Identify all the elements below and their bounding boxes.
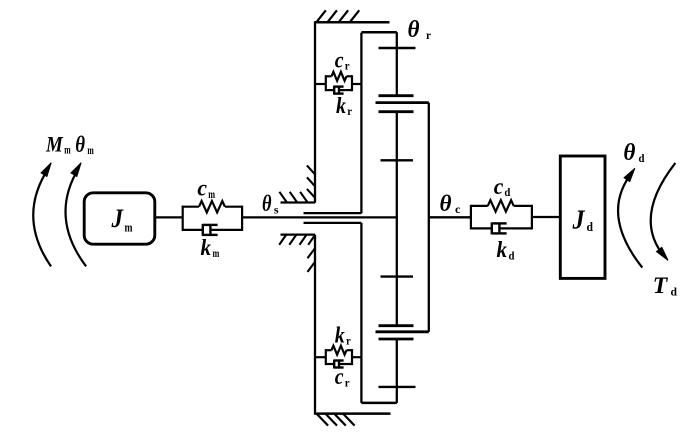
svg-text:c: c bbox=[335, 364, 344, 389]
label c_r upper bbox=[335, 47, 350, 72]
svg-text:θ: θ bbox=[623, 140, 636, 166]
svg-text:d: d bbox=[504, 185, 510, 199]
floor fixed support bbox=[315, 414, 391, 426]
sun shaft upper rail bbox=[304, 212, 362, 214]
lead housing to c_r upper bbox=[315, 83, 326, 85]
svg-text:k: k bbox=[201, 235, 212, 260]
label theta_c bbox=[440, 191, 462, 216]
label k_d bbox=[497, 237, 515, 262]
svg-text:c: c bbox=[335, 47, 344, 72]
lead housing to k_r lower bbox=[315, 356, 326, 358]
ring-planet mesh plates top bbox=[376, 96, 429, 112]
label J_d bbox=[572, 204, 594, 234]
label J_m bbox=[111, 204, 133, 235]
svg-text:r: r bbox=[345, 59, 350, 73]
svg-text:d: d bbox=[639, 151, 645, 165]
planet gear line bbox=[396, 32, 398, 403]
svg-text:m: m bbox=[125, 220, 133, 235]
svg-text:c: c bbox=[494, 174, 504, 199]
svg-text:k: k bbox=[336, 93, 346, 118]
label theta_s bbox=[262, 191, 279, 216]
angle arrow theta_m bbox=[66, 163, 87, 267]
carrier vertical bbox=[428, 103, 430, 332]
housing wall left lower bbox=[314, 235, 316, 415]
bearing tick upper-mid bbox=[381, 159, 414, 161]
svg-text:m: m bbox=[208, 187, 215, 201]
svg-text:r: r bbox=[347, 104, 352, 118]
spring-damper c_m k_m bbox=[183, 201, 242, 236]
svg-text:d: d bbox=[509, 248, 515, 262]
label theta_r bbox=[408, 17, 432, 43]
label k_m bbox=[201, 235, 220, 260]
spring-damper c_d k_d box bbox=[471, 200, 532, 234]
planet-sun mesh plates bottom bbox=[376, 326, 429, 339]
angle arrow theta_d bbox=[618, 168, 642, 267]
torque arrow T_d bbox=[651, 163, 676, 260]
svg-text:m: m bbox=[64, 143, 70, 157]
lower wall stub with hatching bbox=[279, 235, 315, 272]
svg-text:M: M bbox=[45, 132, 64, 157]
torque arrow M_m bbox=[33, 163, 51, 267]
ceiling fixed support bbox=[315, 10, 390, 22]
svg-text:r: r bbox=[346, 334, 351, 348]
label theta_d bbox=[623, 140, 644, 166]
svg-text:θ: θ bbox=[262, 191, 272, 216]
svg-text:c: c bbox=[197, 176, 207, 201]
motor shaft lead bbox=[155, 216, 183, 218]
label k_r upper bbox=[336, 93, 353, 118]
svg-text:θ: θ bbox=[75, 132, 85, 157]
svg-text:θ: θ bbox=[440, 191, 452, 216]
ring gear frame bbox=[361, 32, 396, 403]
housing wall left upper bbox=[314, 21, 316, 203]
inertia J_m bbox=[84, 193, 155, 244]
svg-text:s: s bbox=[274, 202, 279, 216]
svg-text:m: m bbox=[213, 246, 220, 260]
inertia J_d bbox=[560, 156, 605, 278]
gear mesh tick bottom bbox=[379, 386, 416, 388]
label theta_m bbox=[75, 132, 94, 157]
label c_d bbox=[494, 174, 511, 199]
label c_r lower bbox=[335, 364, 350, 389]
sun shaft center line bbox=[242, 216, 397, 218]
upper wall stub with hatching bbox=[279, 165, 315, 202]
sun shaft lower rail bbox=[304, 222, 362, 224]
bearing tick lower-mid bbox=[381, 275, 414, 277]
svg-text:θ: θ bbox=[408, 17, 421, 43]
svg-text:r: r bbox=[426, 28, 432, 42]
label M_m bbox=[45, 132, 71, 157]
spring-damper c_r k_r upper box bbox=[326, 72, 352, 95]
label k_r lower bbox=[335, 322, 352, 347]
carrier output shaft bbox=[429, 216, 471, 218]
svg-text:d: d bbox=[671, 285, 678, 299]
label T_d bbox=[653, 273, 678, 298]
svg-text:T: T bbox=[653, 273, 668, 298]
svg-text:k: k bbox=[335, 322, 345, 347]
lead to J_d bbox=[532, 216, 560, 218]
svg-text:J: J bbox=[111, 204, 124, 233]
lead k_r lower to ring bbox=[352, 356, 361, 358]
label c_m bbox=[197, 176, 215, 202]
svg-text:J: J bbox=[572, 204, 586, 234]
spring-damper k_r c_r lower box bbox=[326, 346, 352, 369]
svg-text:r: r bbox=[345, 375, 350, 389]
svg-text:c: c bbox=[455, 202, 461, 216]
svg-text:d: d bbox=[587, 219, 594, 234]
svg-text:m: m bbox=[87, 143, 93, 157]
gear mesh tick top bbox=[379, 47, 416, 49]
lead c_r upper to ring bbox=[352, 83, 361, 85]
svg-text:k: k bbox=[497, 237, 508, 262]
